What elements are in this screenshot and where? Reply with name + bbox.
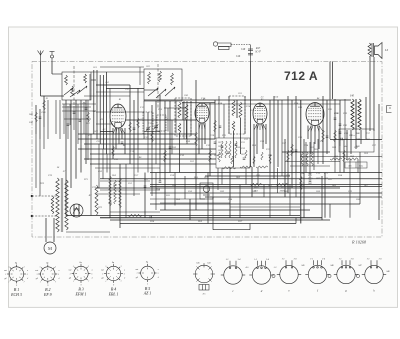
svg-text:Tone: Tone [359,166,363,168]
wire [90,134,92,216]
wire [277,168,279,193]
wire [284,139,286,197]
wire [100,178,382,180]
wire tube pin [317,126,319,132]
resistor R35 [330,158,342,160]
wire [263,185,265,198]
svg-text:d: d [92,278,93,280]
svg-text:met: met [101,268,104,271]
pin mark P1-3 [193,273,197,275]
wire [223,104,225,138]
svg-text:R18: R18 [251,144,257,147]
wire speaker lead1 [369,57,371,97]
wire [233,131,235,167]
wire [159,159,161,181]
pin mark P1-2 [209,267,212,270]
wire tube pin [263,124,266,130]
resistor pack right [311,152,313,166]
svg-text:1-2: 1-2 [282,258,285,260]
wire [289,185,291,216]
svg-text:B 5: B 5 [145,287,150,291]
wire [277,100,279,167]
mains transformer [51,178,68,232]
wire [257,168,259,185]
svg-text:LS: LS [384,48,389,52]
wire tube pin [257,124,259,130]
svg-text:R58: R58 [175,198,181,201]
svg-text:3-4: 3-4 [322,257,325,260]
svg-text:SC47: SC47 [255,51,261,54]
wire mains dashed 2 [32,215,57,217]
wire [321,176,323,220]
capacitor C18 [214,142,217,143]
svg-text:3-4: 3-4 [266,258,269,261]
tube base B3 [70,263,94,287]
tuning indicator block [200,183,213,199]
resistor R11 [195,132,198,146]
svg-text:S21: S21 [93,66,97,69]
terminal bracket [387,106,392,113]
svg-text:R17: R17 [249,109,255,112]
wire [295,96,297,173]
wire [78,133,196,135]
svg-text:C45: C45 [196,262,199,265]
wire [334,159,336,173]
wire [290,165,330,167]
wire [281,100,283,176]
wire [78,148,216,150]
resistor R9 [164,150,167,162]
wire [96,84,130,86]
IF transformer T1 [175,98,191,136]
svg-text:R41a: R41a [348,134,355,137]
wire [52,73,62,75]
pickup PU [213,42,250,62]
wire [251,167,253,197]
svg-text:B1: B1 [119,99,122,101]
wire [330,139,382,141]
chassis dashed frame [32,62,382,238]
svg-text:EFM 1: EFM 1 [75,292,87,296]
wire [99,75,101,144]
svg-text:R31: R31 [240,154,245,156]
wire [179,133,181,173]
plug c [221,261,245,284]
capacitor Ct3 [67,124,70,125]
svg-text:EF 9: EF 9 [43,293,52,297]
svg-text:1-2: 1-2 [310,258,313,260]
resistor R6 [137,118,140,128]
wire [287,96,289,193]
wire [78,204,80,216]
loudspeaker LS [368,43,382,59]
svg-text:g4: g4 [4,277,6,280]
wire antenna feed [40,62,42,97]
capacitor C30 [295,150,298,151]
svg-text:g4: g4 [36,277,38,280]
pin mark P1-0 [197,267,200,270]
resistor R21 [291,144,294,156]
wire [100,131,113,133]
resistor pack right [301,152,303,166]
wire [96,91,144,93]
output transformer S40 [351,99,361,130]
wire [137,88,139,149]
wire [112,128,114,159]
wire [53,218,55,242]
wire [245,168,247,185]
wire [300,100,302,224]
wire [106,88,144,90]
svg-text:g4: g4 [136,276,138,279]
wire [205,103,340,105]
capacitor C41s [334,118,337,119]
capacitor C31 [326,136,329,137]
wire [96,111,144,113]
resistor R20 [287,150,290,162]
wire [91,79,96,81]
svg-text:R59: R59 [197,220,203,223]
wire [305,142,307,173]
wire [102,75,104,149]
pin mark P1-1 [203,263,205,267]
capacitor C19 [219,126,222,127]
wire [121,128,123,139]
svg-text:R 10268: R 10268 [351,240,367,245]
resistor R63 [276,183,288,185]
svg-text:B 3: B 3 [78,288,83,292]
svg-text:B 4: B 4 [111,288,116,292]
svg-text:met: met [68,268,71,271]
resistor R12 [209,150,212,162]
svg-text:R33: R33 [327,178,333,181]
wire tube pin [113,128,116,134]
resistor R15 [218,152,221,162]
svg-text:C46: C46 [236,55,241,58]
wire [332,62,334,100]
wire [329,99,331,139]
wire [151,105,153,149]
plug e [277,260,301,283]
wire [155,101,157,144]
wire tube pin [199,123,201,129]
resistor pack right [306,152,308,166]
wire [365,97,367,139]
wire [144,99,351,101]
wire speaker lead2 [373,57,375,97]
wire [164,101,166,210]
capacitor C24 [235,144,238,145]
wire [217,168,219,190]
wire [189,199,191,220]
wire tube pin [319,126,323,132]
knob plug f [328,274,331,277]
wire [310,126,312,155]
wire [62,103,96,105]
svg-text:met: met [35,269,38,272]
wire [205,196,382,198]
svg-text:S1: S1 [46,97,49,100]
wire [137,149,139,173]
valve B5 AZ1 rectifier [70,204,83,217]
wire [349,159,351,218]
wire tube pin [116,128,117,134]
band switch S2 coil box [144,69,182,101]
svg-text:C48: C48 [241,48,246,51]
capacitor C2 [39,117,42,118]
wire [155,173,157,211]
wire [73,204,75,217]
resistor cluster [235,141,237,158]
capacitor C47 [248,49,253,55]
wire [167,108,169,132]
wire [182,102,215,104]
plug g [334,260,358,283]
wire antenna feed h [41,95,65,97]
wire [126,119,196,121]
wire [144,89,158,91]
wire [339,146,341,173]
wire rf link drop [139,67,141,85]
wire [346,130,348,160]
wire [83,102,85,134]
wire [307,126,309,140]
wire [262,124,264,149]
svg-text:M: M [48,246,52,251]
wire [282,151,330,153]
svg-text:712 A: 712 A [284,69,318,83]
wire [322,96,324,164]
wire rf link 1 [100,66,144,68]
svg-text:3-4: 3-4 [351,257,354,260]
svg-text:1: 1 [105,281,106,283]
resistor cluster [225,141,227,158]
svg-text:C11: C11 [130,151,134,153]
plug d [249,261,273,284]
wire [171,120,173,154]
wire [285,161,340,163]
wire [84,95,130,97]
wire tube pin [262,124,264,130]
wire [186,120,188,139]
svg-text:3-4: 3-4 [294,257,297,260]
wire [150,172,382,174]
wire tube pin [311,126,313,132]
wire [218,96,220,138]
capacitor C23 [227,152,230,153]
wire [265,124,267,144]
wire [355,130,357,149]
wire [326,100,328,154]
tube base B1 [5,263,29,287]
wire [147,139,149,173]
wire rf link 2 [91,71,144,73]
wire [269,100,271,173]
wire tube pin [122,128,126,134]
switch coupling link S2 [157,64,159,108]
valve B4 EBL1 [306,103,324,126]
svg-text:R72: R72 [97,206,103,209]
feedback network box [339,129,374,152]
wire [214,100,216,139]
wire [344,99,346,139]
resistor R52 [119,178,122,208]
wire [67,106,69,139]
wire [174,173,176,206]
wire [334,99,336,159]
resistor R60 [222,167,236,169]
capacitor C14 [169,147,172,148]
wire [256,124,258,154]
wire [160,209,310,211]
svg-text:a: a [58,270,59,272]
resistor R16 [231,156,234,164]
svg-text:1-2: 1-2 [339,258,342,260]
wire pickup drop [250,62,252,101]
wire [119,164,121,228]
capacitor C22 [221,146,224,147]
wire [155,144,157,164]
resistor R1 [35,112,38,122]
wire [143,101,145,139]
wire [339,100,341,146]
wire [291,100,293,188]
capacitor C55 [144,186,147,187]
wire [80,100,82,173]
wire [109,89,111,165]
wire agc bus dark [150,186,382,188]
wire [350,130,352,154]
svg-text:g4: g4 [69,277,71,280]
svg-text:R14: R14 [217,102,223,105]
svg-text:1-2: 1-2 [367,258,370,260]
wire [317,139,319,164]
wire [96,70,98,139]
svg-text:C43: C43 [207,262,210,265]
capacitor C33 [341,138,342,141]
wire [150,198,205,200]
pin mark P1-4 [211,273,215,275]
resistor R ballast [95,185,98,215]
wire [78,138,215,140]
wire [89,74,91,100]
capacitor C39s [339,124,342,125]
svg-text:1-2: 1-2 [226,259,229,261]
wire [96,187,340,189]
wire [62,106,91,108]
wire [357,159,359,173]
tube base B2 [36,263,60,287]
svg-text:met: met [135,268,138,271]
wire [150,203,360,205]
resistor R7 [112,146,115,156]
switch coupling link S1 [73,66,75,106]
junction node terminal 1 [31,195,33,197]
wire [198,123,200,154]
capacitor C40 [309,180,312,181]
wire tube pin [254,124,257,130]
wire [295,173,297,198]
wire [95,167,160,169]
resistor R5 [129,122,132,132]
wire return staircase [208,152,360,230]
tube base B5 [137,263,160,286]
wire [150,192,382,194]
wire [96,193,140,195]
wire [64,118,91,120]
wire [90,153,216,155]
wire tube pin [308,126,312,132]
wire [75,100,77,179]
wire return 223 [120,223,296,225]
wire [300,156,382,158]
wire [184,176,186,199]
wire [239,185,241,218]
resistor R24 [343,150,346,162]
wire [110,211,160,213]
wire [144,173,146,218]
wire [102,149,104,179]
wire antenna2 feed [51,62,53,75]
wire [70,100,72,188]
svg-text:R19: R19 [297,106,303,109]
wire [100,189,160,191]
wire [160,202,230,204]
wire tube pin [259,124,261,130]
wire [55,100,57,134]
wire [205,175,290,177]
resistor R13 [214,120,217,132]
wire [65,100,67,216]
tube base B4 [102,263,126,287]
svg-text:C61: C61 [166,194,170,197]
wire [303,139,305,218]
wire [109,164,111,218]
svg-text:EBL 1: EBL 1 [108,292,119,296]
wire [169,101,171,173]
wire [186,101,188,144]
wire [59,100,61,139]
capacitor C25 [243,158,246,159]
wire [98,144,100,188]
wire [100,180,150,182]
wire [39,139,41,196]
wire [195,80,197,210]
trimmer C12 [154,124,159,129]
wire [244,96,246,134]
wire [201,123,203,149]
svg-text:C31: C31 [320,141,324,143]
pin mark P1-5 [197,279,200,282]
wire [35,105,37,134]
pin mark P1-6 [209,279,212,282]
wire [133,100,135,159]
svg-text:d: d [158,277,159,279]
wire [373,97,375,131]
wire return 229 [213,229,250,231]
svg-text:R41: R41 [28,113,33,116]
svg-text:S31: S31 [238,92,242,95]
svg-text:3-4: 3-4 [379,257,382,260]
wire [39,109,41,139]
capacitor C57a [159,181,162,182]
capacitor C10 [121,142,124,143]
valve B1 ECH3 [110,104,126,128]
svg-text:AZ 1: AZ 1 [143,292,152,296]
svg-text:R71: R71 [83,178,88,181]
capacitor Ct1 [73,112,76,113]
wire [43,96,45,127]
